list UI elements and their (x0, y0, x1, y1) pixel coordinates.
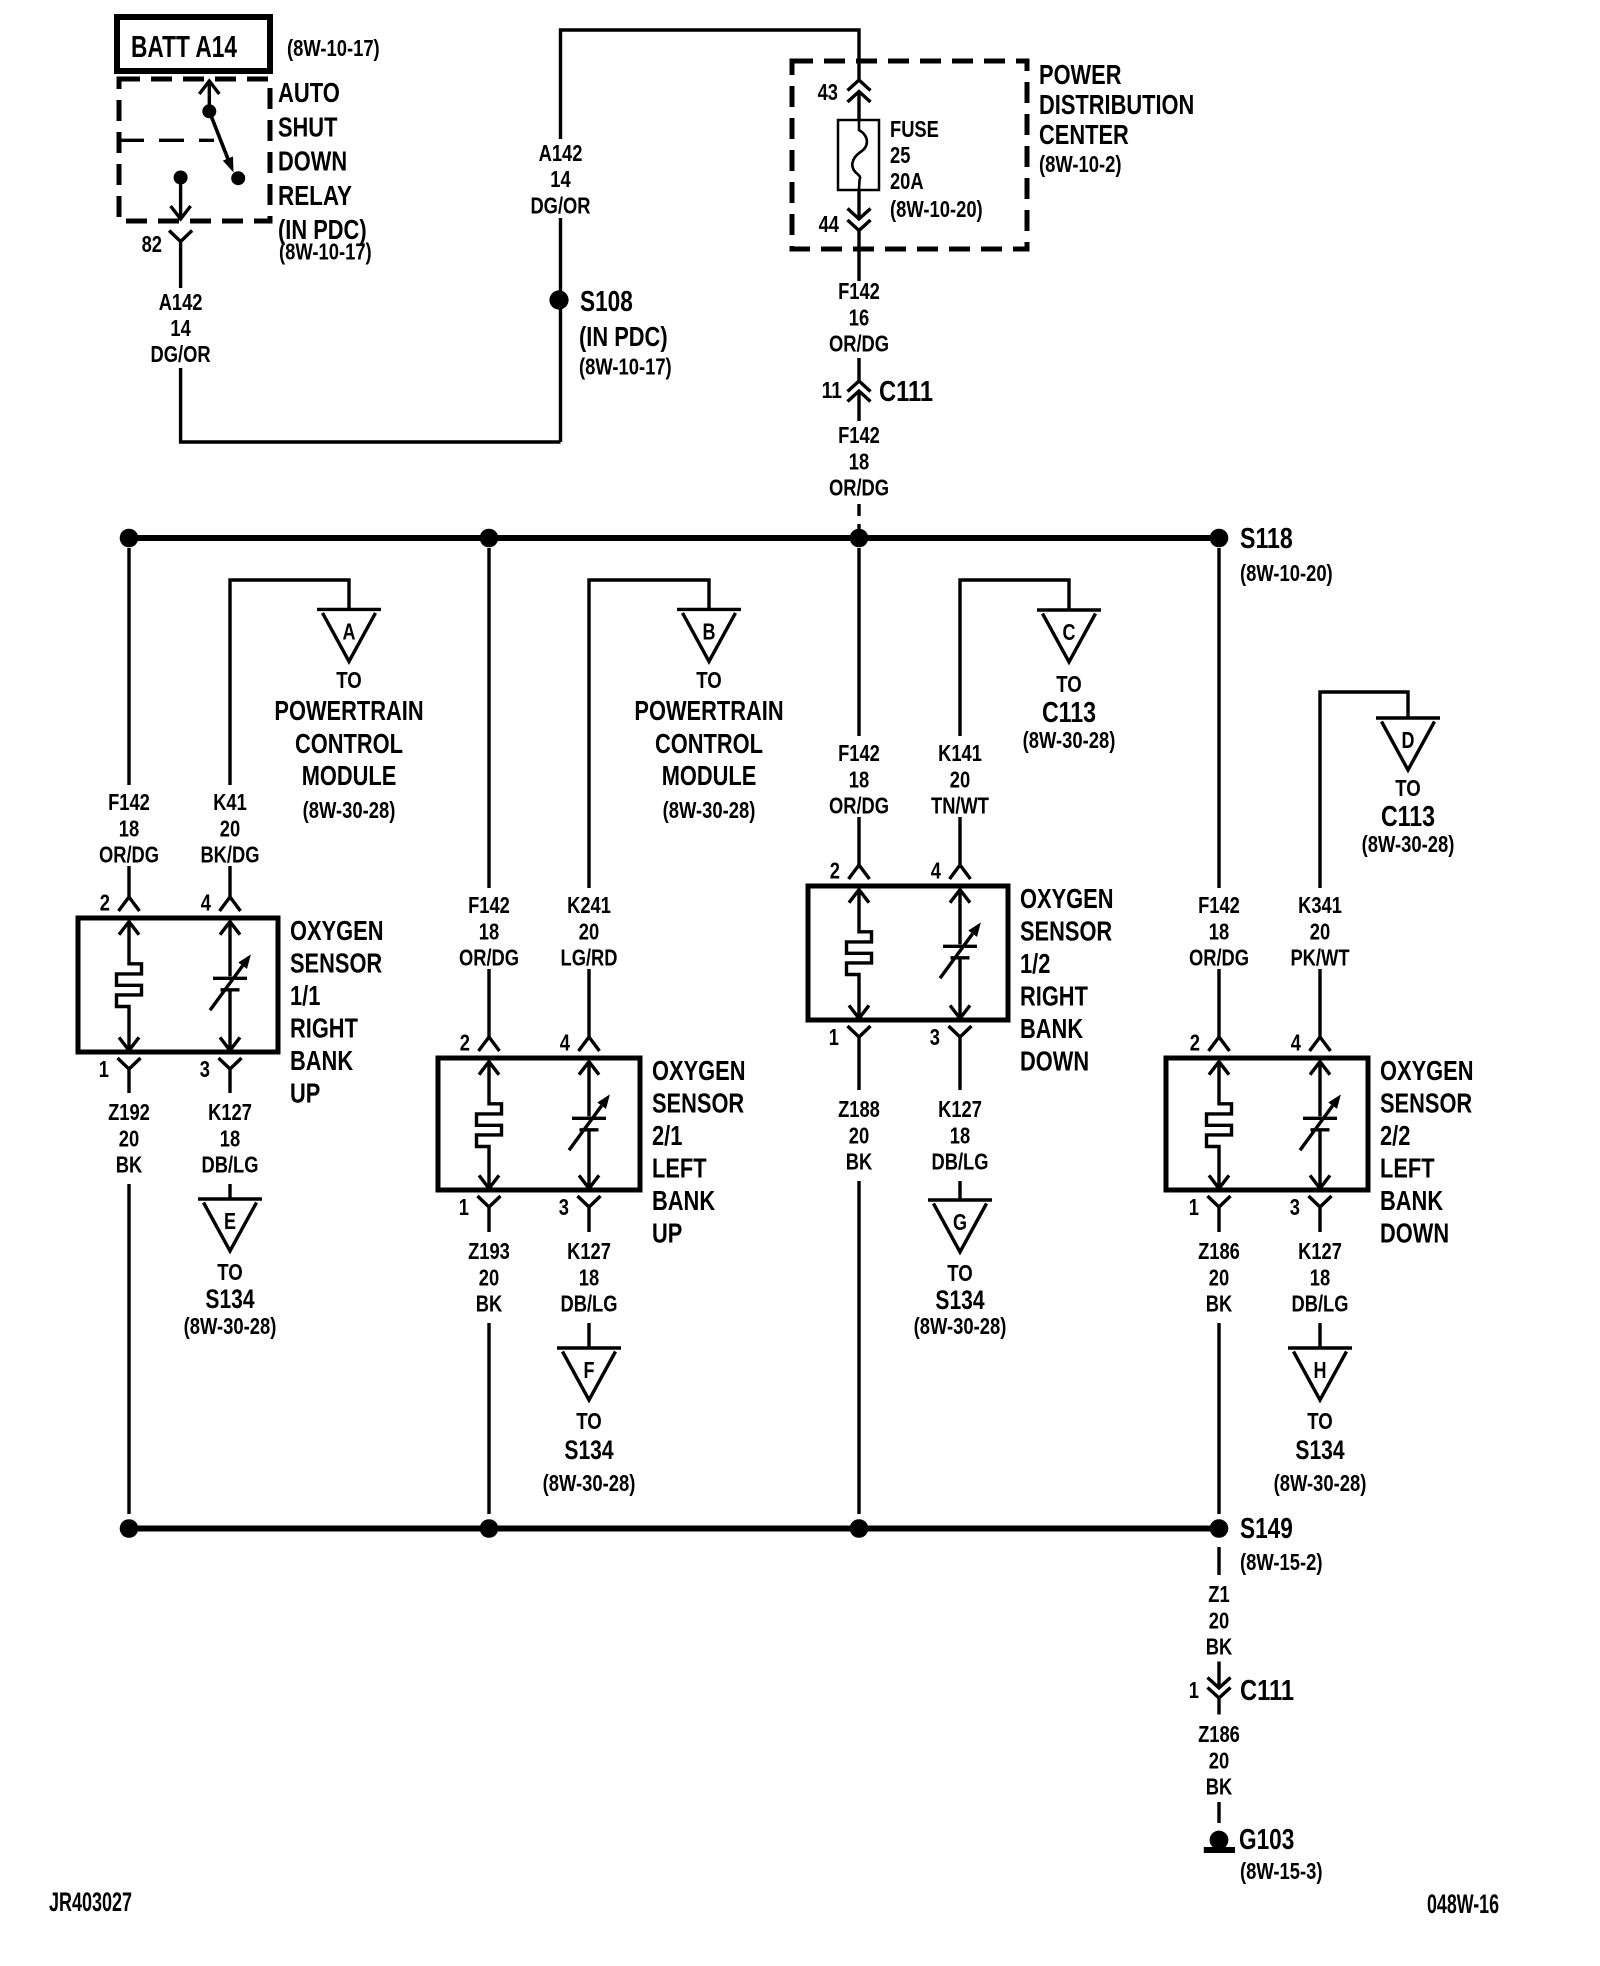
svg-text:18: 18 (849, 448, 869, 474)
svg-text:Z193: Z193 (468, 1238, 510, 1264)
svg-text:DB/LG: DB/LG (1292, 1291, 1349, 1317)
oxygen sensor box 2 (438, 1058, 640, 1190)
wire below C111 (857, 391, 860, 421)
wire Z193 to ground bus (487, 1323, 490, 1514)
svg-text:Z192: Z192 (108, 1099, 150, 1125)
svg-text:POWERTRAIN: POWERTRAIN (634, 695, 783, 726)
pin 1 connector (459, 1194, 501, 1232)
svg-text:F142: F142 (108, 789, 150, 815)
svg-text:BK/DG: BK/DG (200, 842, 259, 868)
wire into pin 4 (587, 969, 590, 1037)
svg-text:DG/OR: DG/OR (530, 192, 590, 218)
pin 4 connector (560, 1030, 600, 1056)
sensing element internal arrow (top, pin4) (579, 1062, 599, 1075)
svg-text:1: 1 (829, 1024, 839, 1050)
svg-text:LEFT: LEFT (652, 1153, 707, 1184)
svg-text:82: 82 (142, 231, 162, 257)
wire from relay to S108 (corner) (181, 368, 561, 442)
connector E triangle (198, 1199, 262, 1251)
heater element internal arrow (top, pin2) (119, 922, 139, 935)
svg-text:(8W-10-17): (8W-10-17) (579, 354, 672, 380)
sensing element internal arrow (top, pin4) (1310, 1062, 1330, 1075)
connector C111 pin 11 (822, 376, 934, 408)
wire into pin 2 (487, 969, 490, 1037)
svg-text:BANK: BANK (652, 1185, 715, 1216)
svg-text:1: 1 (459, 1194, 469, 1220)
TO POWERTRAIN CONTROL MODULE text (A) (274, 667, 423, 823)
svg-text:BK: BK (1206, 1291, 1233, 1317)
svg-text:TO: TO (1056, 671, 1082, 697)
svg-text:2: 2 (1190, 1030, 1200, 1056)
wire into pin 4 (958, 817, 961, 865)
relay output node dot (174, 171, 188, 185)
svg-text:K127: K127 (208, 1099, 252, 1125)
svg-text:C111: C111 (879, 376, 933, 408)
svg-text:JR403027: JR403027 (49, 1887, 132, 1917)
svg-text:2: 2 (460, 1030, 470, 1056)
wire K341 branch with jog to connector D (1320, 692, 1408, 888)
svg-text:C113: C113 (1381, 801, 1435, 833)
POWER DISTRIBUTION CENTER dashed box (792, 61, 1027, 249)
svg-text:BANK: BANK (1020, 1013, 1083, 1044)
wire F142 branch 4 from bus (1217, 548, 1220, 888)
svg-text:G103: G103 (1239, 1824, 1294, 1856)
svg-text:A142: A142 (539, 140, 583, 166)
svg-text:25: 25 (890, 142, 910, 168)
svg-text:RIGHT: RIGHT (1020, 981, 1088, 1012)
svg-text:OXYGEN: OXYGEN (1020, 883, 1114, 914)
svg-text:RELAY: RELAY (278, 180, 352, 211)
wire above C111 pin 1 (1217, 1662, 1220, 1688)
svg-text:SHUT: SHUT (278, 111, 337, 142)
sensing element internal arrow (top, pin4) (220, 922, 240, 935)
junction dot (col 2) (480, 529, 499, 548)
sensing internal arrow (bottom) (1310, 1175, 1330, 1188)
svg-text:S108: S108 (580, 286, 633, 318)
svg-text:BK: BK (846, 1149, 873, 1175)
wire F142 branch 1 from bus (127, 548, 130, 785)
connector C triangle (1037, 610, 1101, 662)
heater internal arrow (bottom) (1209, 1175, 1229, 1188)
svg-text:K127: K127 (1298, 1238, 1342, 1264)
svg-text:CONTROL: CONTROL (295, 728, 403, 759)
svg-text:2: 2 (830, 858, 840, 884)
svg-text:UP: UP (652, 1218, 682, 1249)
heater internal arrow (bottom) (119, 1037, 139, 1050)
svg-text:1: 1 (99, 1056, 109, 1082)
svg-text:DOWN: DOWN (278, 146, 347, 177)
svg-text:F142: F142 (468, 892, 510, 918)
svg-text:20A: 20A (890, 168, 924, 194)
svg-text:AUTO: AUTO (278, 77, 340, 108)
connector F triangle (557, 1348, 621, 1400)
relay common node dot (202, 104, 216, 118)
relay contact dot (NO) (231, 171, 245, 185)
pin 2 connector (100, 890, 140, 916)
oxygen sensor box 4 (1166, 1058, 1368, 1190)
wire K127 to connector F (587, 1323, 590, 1348)
wire K41 branch with jog to connector A (230, 580, 349, 785)
PDC pin 44 connector (819, 209, 871, 238)
svg-text:SENSOR: SENSOR (652, 1088, 744, 1119)
wire K241 branch with jog to connector B (589, 580, 709, 888)
svg-text:F142: F142 (838, 740, 880, 766)
svg-text:18: 18 (479, 918, 499, 944)
TO C113 text (C) (1023, 671, 1116, 753)
svg-text:TO: TO (947, 1260, 973, 1286)
svg-text:(8W-30-28): (8W-30-28) (1362, 831, 1455, 857)
relay contact arrow to BATT (199, 81, 219, 111)
svg-text:S118: S118 (1240, 523, 1293, 555)
svg-text:18: 18 (1209, 918, 1229, 944)
svg-text:Z188: Z188 (838, 1096, 880, 1122)
pin 3 connector (200, 1056, 242, 1093)
svg-text:DB/LG: DB/LG (202, 1152, 259, 1178)
G103 label (1239, 1824, 1323, 1884)
oxygen sensor box 1 (78, 918, 278, 1052)
svg-text:C111: C111 (1240, 1675, 1294, 1707)
heater internal arrow (bottom) (849, 1005, 869, 1018)
svg-text:S149: S149 (1240, 1513, 1293, 1545)
pin 3 connector (930, 1024, 972, 1090)
ground bus wire S149 (129, 1526, 1219, 1532)
pin 4 connector (1291, 1030, 1331, 1056)
svg-text:14: 14 (170, 315, 190, 341)
svg-text:TN/WT: TN/WT (931, 793, 990, 819)
svg-text:OR/DG: OR/DG (1189, 945, 1249, 971)
wire above C111 (857, 358, 860, 381)
wire into pin 2 (857, 817, 860, 865)
svg-text:20: 20 (1209, 1747, 1229, 1773)
svg-text:(8W-30-28): (8W-30-28) (663, 797, 756, 823)
svg-text:20: 20 (1209, 1264, 1229, 1290)
svg-text:OR/DG: OR/DG (829, 793, 889, 819)
svg-text:1: 1 (1189, 1194, 1199, 1220)
svg-text:20: 20 (849, 1122, 869, 1148)
sensing element internal arrow (top, pin4) (950, 890, 970, 903)
junction dot (col 3) (850, 529, 869, 548)
svg-text:(8W-30-28): (8W-30-28) (1274, 1470, 1367, 1496)
heater element internal arrow (top, pin2) (479, 1062, 499, 1075)
oxygen sensor box 3 (808, 886, 1008, 1020)
wire below S149 (1217, 1547, 1220, 1575)
connector A triangle (317, 609, 381, 661)
svg-text:(8W-10-20): (8W-10-20) (890, 196, 983, 222)
svg-text:(8W-30-28): (8W-30-28) (184, 1313, 277, 1339)
wire top segment to PDC (561, 30, 860, 139)
svg-text:C: C (1063, 619, 1076, 645)
svg-text:4: 4 (931, 858, 941, 884)
svg-text:LEFT: LEFT (1380, 1153, 1435, 1184)
pin 1 connector (1189, 1194, 1231, 1232)
sensing element (variable) (228, 922, 231, 977)
sensor name text 1 (290, 915, 384, 1109)
svg-text:(8W-30-28): (8W-30-28) (303, 797, 396, 823)
S149 label (1240, 1513, 1323, 1575)
svg-text:BK: BK (116, 1152, 143, 1178)
TO C113 text (D) (1362, 775, 1455, 857)
svg-text:3: 3 (930, 1024, 940, 1050)
svg-text:S134: S134 (205, 1284, 254, 1314)
junction dot (col 1) (120, 529, 139, 548)
svg-text:A142: A142 (159, 289, 203, 315)
svg-text:BANK: BANK (1380, 1185, 1443, 1216)
wire pin43 to fuse (857, 92, 860, 121)
svg-text:(8W-10-17): (8W-10-17) (287, 35, 380, 61)
wire into pin 4 (1318, 969, 1321, 1037)
svg-text:MODULE: MODULE (662, 760, 757, 791)
wire fuse to pin 44 (857, 190, 860, 219)
svg-text:B: B (703, 618, 716, 644)
splice S108 dot (549, 290, 568, 309)
wire into pin 2 (1217, 969, 1220, 1037)
svg-text:CENTER: CENTER (1039, 119, 1129, 150)
svg-text:RIGHT: RIGHT (290, 1013, 358, 1044)
svg-text:20: 20 (119, 1125, 139, 1151)
wire Z188 to ground bus (857, 1181, 860, 1514)
TO S134 text (G) (914, 1260, 1007, 1339)
ground G103 symbol (1204, 1831, 1235, 1850)
svg-text:MODULE: MODULE (302, 760, 397, 791)
junction dot (col 2) (480, 1519, 499, 1538)
svg-text:LG/RD: LG/RD (561, 945, 618, 971)
svg-text:3: 3 (559, 1194, 569, 1220)
relay K1 AUTO SHUT DOWN RELAY (IN PDC) dashed box (119, 79, 270, 221)
svg-text:DOWN: DOWN (1380, 1218, 1449, 1249)
svg-text:BK: BK (1206, 1774, 1233, 1800)
sensing internal arrow (bottom) (950, 1005, 970, 1018)
relay internal divider (119, 139, 214, 142)
S118 label (1240, 523, 1333, 586)
svg-text:K141: K141 (938, 740, 982, 766)
svg-text:3: 3 (1290, 1194, 1300, 1220)
heater element (1207, 1062, 1232, 1189)
wire K141 branch with jog to connector C (960, 580, 1069, 736)
svg-text:UP: UP (290, 1078, 320, 1109)
TO POWERTRAIN CONTROL MODULE text (B) (634, 667, 783, 823)
svg-text:3: 3 (200, 1056, 210, 1082)
svg-text:S134: S134 (935, 1285, 984, 1315)
svg-text:OXYGEN: OXYGEN (1380, 1055, 1474, 1086)
svg-text:TO: TO (576, 1408, 602, 1434)
svg-text:Z1: Z1 (1208, 1581, 1229, 1607)
junction dot (col 1) (120, 1519, 139, 1538)
battery feed BATT A14 (117, 17, 270, 71)
svg-text:G: G (953, 1209, 967, 1235)
svg-text:F142: F142 (838, 278, 880, 304)
svg-text:F142: F142 (1198, 892, 1240, 918)
pin 1 connector (829, 1024, 871, 1090)
wire K127 to connector H (1318, 1323, 1321, 1348)
wire F142 branch 2 from bus (487, 548, 490, 888)
sensing internal arrow (bottom) (579, 1175, 599, 1188)
svg-text:S134: S134 (564, 1435, 613, 1465)
svg-text:(8W-10-20): (8W-10-20) (1240, 560, 1333, 586)
svg-text:(8W-30-28): (8W-30-28) (914, 1313, 1007, 1339)
pin 4 connector (201, 890, 241, 916)
wire below label through S108 (559, 218, 562, 442)
svg-text:K341: K341 (1298, 892, 1342, 918)
svg-text:20: 20 (1310, 918, 1330, 944)
bus wire S118 (129, 535, 1219, 541)
svg-text:4: 4 (560, 1030, 570, 1056)
svg-text:44: 44 (819, 211, 839, 237)
svg-text:OR/DG: OR/DG (459, 945, 519, 971)
svg-text:18: 18 (119, 815, 139, 841)
pin 3 connector (1290, 1194, 1332, 1232)
svg-text:OXYGEN: OXYGEN (652, 1055, 746, 1086)
heater element internal arrow (top, pin2) (1209, 1062, 1229, 1075)
wire K127 to connector G (958, 1181, 961, 1200)
svg-text:1/2: 1/2 (1020, 948, 1050, 979)
connector C111 pin 1 (1189, 1675, 1294, 1715)
dashed wire stub into bus S118 (857, 504, 860, 535)
svg-text:20: 20 (950, 766, 970, 792)
svg-text:DOWN: DOWN (1020, 1046, 1089, 1077)
svg-text:(8W-10-17): (8W-10-17) (279, 239, 372, 265)
svg-text:11: 11 (822, 377, 842, 403)
fuse label FUSE 25 20A (890, 116, 983, 222)
svg-text:4: 4 (1291, 1030, 1301, 1056)
sensing internal arrow (bottom) (220, 1037, 240, 1050)
svg-text:(8W-30-28): (8W-30-28) (543, 1470, 636, 1496)
wire into pin 4 (228, 866, 231, 897)
svg-text:14: 14 (550, 166, 570, 192)
svg-text:20: 20 (479, 1264, 499, 1290)
svg-text:048W-16: 048W-16 (1427, 1889, 1499, 1919)
svg-text:1/1: 1/1 (290, 980, 320, 1011)
svg-text:K127: K127 (938, 1096, 982, 1122)
svg-text:DG/OR: DG/OR (151, 341, 211, 367)
svg-text:(8W-15-2): (8W-15-2) (1240, 1549, 1323, 1575)
TO S134 text (H) (1274, 1408, 1367, 1496)
svg-text:(IN PDC): (IN PDC) (579, 321, 668, 352)
svg-text:16: 16 (849, 304, 869, 330)
svg-text:(8W-15-3): (8W-15-3) (1240, 1858, 1323, 1884)
pin 4 connector (931, 858, 971, 884)
heater element (117, 922, 142, 1051)
svg-text:1: 1 (1189, 1677, 1199, 1703)
wire pin44 down out of PDC (857, 231, 860, 282)
sensing element (variable) (587, 1062, 590, 1117)
svg-text:(8W-10-2): (8W-10-2) (1039, 151, 1122, 177)
sensing element (variable) (1318, 1062, 1321, 1117)
TO S134 text (F) (543, 1408, 636, 1496)
svg-text:TO: TO (1395, 775, 1421, 801)
svg-text:POWER: POWER (1039, 59, 1122, 90)
relay output arrow to pin 82 (171, 185, 191, 220)
svg-text:SENSOR: SENSOR (1380, 1088, 1472, 1119)
wire F142 branch 3 from bus (857, 548, 860, 736)
svg-text:S134: S134 (1295, 1435, 1344, 1465)
svg-text:18: 18 (849, 766, 869, 792)
svg-text:BATT A14: BATT A14 (131, 29, 238, 64)
junction dot (col 3) (850, 1519, 869, 1538)
heater element (477, 1062, 502, 1189)
PDC pin 43 connector (818, 79, 871, 105)
svg-text:2: 2 (100, 890, 110, 916)
svg-text:TO: TO (1307, 1408, 1333, 1434)
svg-text:F: F (584, 1357, 595, 1383)
svg-text:OR/DG: OR/DG (99, 842, 159, 868)
relay movable contact arm (209, 111, 233, 172)
svg-text:C113: C113 (1042, 697, 1096, 729)
svg-text:43: 43 (818, 79, 838, 105)
sensor name text 3 (1020, 883, 1114, 1077)
svg-text:Z186: Z186 (1198, 1721, 1240, 1747)
wire into pin 2 (127, 866, 130, 897)
svg-text:TO: TO (696, 667, 722, 693)
svg-text:BANK: BANK (290, 1045, 353, 1076)
svg-text:20: 20 (579, 918, 599, 944)
pin 1 connector (99, 1056, 141, 1093)
svg-text:K127: K127 (567, 1238, 611, 1264)
svg-text:DISTRIBUTION: DISTRIBUTION (1039, 89, 1194, 120)
wire K127 to connector E (228, 1184, 231, 1199)
wire Z186 to ground bus (1217, 1323, 1220, 1514)
svg-text:F142: F142 (838, 422, 880, 448)
svg-text:20: 20 (1209, 1607, 1229, 1633)
pin 2 connector (1190, 1030, 1230, 1056)
svg-text:OXYGEN: OXYGEN (290, 915, 384, 946)
svg-text:H: H (1314, 1357, 1327, 1383)
relay name text (278, 77, 372, 265)
svg-text:OR/DG: OR/DG (829, 475, 889, 501)
svg-text:E: E (224, 1208, 236, 1234)
fuse 25 20A (838, 120, 879, 190)
svg-text:SENSOR: SENSOR (1020, 916, 1112, 947)
svg-text:K241: K241 (567, 892, 611, 918)
pin 2 connector (830, 858, 870, 884)
connector G triangle (928, 1200, 992, 1252)
relay pin 82 connector (142, 231, 193, 258)
svg-text:BK: BK (1206, 1634, 1233, 1660)
heater internal arrow (bottom) (479, 1175, 499, 1188)
wire Z192 to ground bus (127, 1184, 130, 1514)
TO S134 text (E) (184, 1259, 277, 1339)
pin 3 connector (559, 1194, 601, 1232)
svg-text:DB/LG: DB/LG (561, 1291, 618, 1317)
svg-text:20: 20 (220, 815, 240, 841)
sensing element (variable) (958, 890, 961, 945)
svg-text:4: 4 (201, 890, 211, 916)
svg-text:2/1: 2/1 (652, 1120, 682, 1151)
svg-text:CONTROL: CONTROL (655, 728, 763, 759)
connector H triangle (1288, 1348, 1352, 1400)
sensor name text 2 (652, 1055, 746, 1249)
svg-text:OR/DG: OR/DG (829, 331, 889, 357)
svg-text:18: 18 (950, 1122, 970, 1148)
connector B triangle (677, 609, 741, 661)
pin 2 connector (460, 1030, 500, 1056)
PDC label text (1039, 59, 1194, 177)
svg-text:18: 18 (220, 1125, 240, 1151)
svg-text:K41: K41 (213, 789, 247, 815)
svg-text:TO: TO (217, 1259, 243, 1285)
svg-text:DB/LG: DB/LG (932, 1149, 989, 1175)
wire to ground G103 (1217, 1802, 1220, 1823)
svg-text:TO: TO (336, 667, 362, 693)
svg-text:18: 18 (1310, 1264, 1330, 1290)
svg-text:Z186: Z186 (1198, 1238, 1240, 1264)
svg-text:BK: BK (476, 1291, 503, 1317)
svg-text:D: D (1402, 727, 1415, 753)
heater element (847, 890, 872, 1019)
svg-text:2/2: 2/2 (1380, 1120, 1410, 1151)
svg-text:PK/WT: PK/WT (1290, 945, 1350, 971)
heater element internal arrow (top, pin2) (849, 890, 869, 903)
sensor name text 4 (1380, 1055, 1474, 1249)
